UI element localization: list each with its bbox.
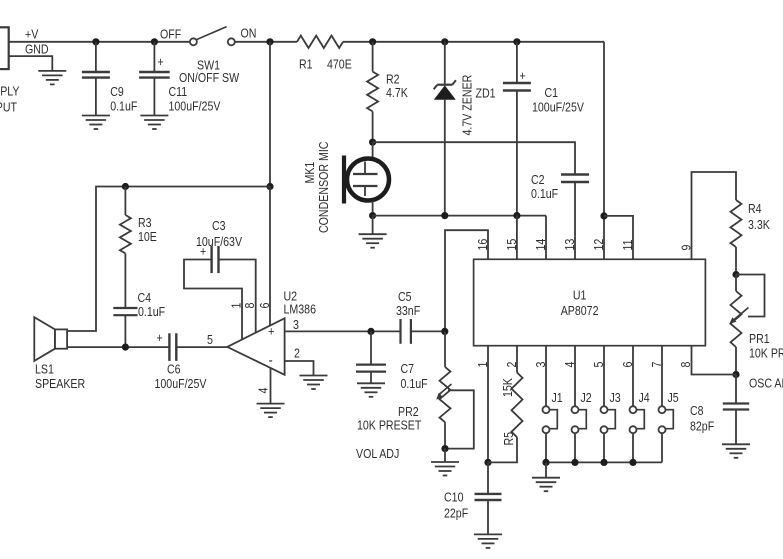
ground (PR2) [431, 462, 459, 476]
node GND label [25, 43, 49, 57]
wire C2 to pin 13 [574, 182, 576, 259]
ground (power input) [38, 71, 66, 85]
resistor R3 [120, 187, 157, 309]
ground (U2 pin 4) [257, 404, 285, 418]
svg-text:LM386: LM386 [284, 303, 316, 317]
capacitor C11 [139, 42, 221, 116]
capacitor C7 [356, 331, 428, 391]
svg-text:0.1uF: 0.1uF [110, 100, 137, 114]
pin 6 label [621, 362, 635, 368]
svg-text:4: 4 [257, 387, 271, 393]
label OFF [160, 28, 181, 42]
svg-text:100uF/25V: 100uF/25V [155, 377, 207, 391]
label CONDENSOR MIC [317, 142, 331, 233]
svg-text:C3: C3 [212, 219, 226, 233]
wire C6 to U2 output [176, 346, 227, 348]
svg-text:3.3K: 3.3K [748, 218, 770, 232]
svg-text:ZD1: ZD1 [476, 87, 496, 101]
svg-text:LS1: LS1 [35, 363, 54, 377]
junction jumper bus [571, 459, 578, 466]
wire rail to pin 12 [603, 42, 605, 259]
wire +V from connector [9, 41, 190, 43]
svg-text:J3: J3 [610, 391, 621, 405]
svg-text:U1: U1 [573, 289, 587, 303]
power supply connector J-PWR [0, 27, 20, 114]
svg-text:C6: C6 [167, 363, 181, 377]
svg-text:C8: C8 [690, 404, 704, 418]
svg-text:1: 1 [230, 303, 244, 309]
svg-text:VOL ADJ: VOL ADJ [356, 447, 399, 461]
wire pin 6 supply [269, 187, 271, 326]
svg-text:C2: C2 [531, 173, 545, 187]
svg-text:0.1uF: 0.1uF [531, 187, 558, 201]
ground (mic) [359, 234, 387, 248]
junction R4 / PR1 [732, 271, 739, 278]
svg-text:U2: U2 [284, 290, 298, 304]
capacitor C1 [503, 42, 584, 216]
svg-text:C9: C9 [110, 85, 124, 99]
wire pin to jumper J1 [545, 346, 547, 407]
wire C3 left to pin 1 [184, 260, 242, 340]
wire pin 15 stub [516, 216, 518, 260]
wire mic to C2 [373, 142, 575, 174]
wire C5 to volume node [411, 330, 445, 332]
ground (jumper bus) [532, 478, 560, 492]
svg-text:100uF/25V: 100uF/25V [532, 101, 584, 115]
svg-text:C5: C5 [398, 290, 412, 304]
svg-text:10uF/63V: 10uF/63V [196, 235, 242, 249]
junction R3 top [122, 183, 129, 190]
svg-text:SUPPLY: SUPPLY [0, 85, 20, 99]
junction pin 12 / pin 11 [600, 212, 607, 219]
jumper J3 [601, 391, 621, 462]
junction C4 bottom [122, 344, 129, 351]
svg-text:R5: R5 [502, 432, 516, 446]
svg-text:PR1: PR1 [749, 332, 770, 346]
svg-text:R3: R3 [138, 216, 152, 230]
svg-text:12: 12 [592, 239, 606, 251]
wire speaker top rail [67, 187, 270, 332]
wire SW1 to R1 [235, 41, 297, 43]
svg-text:15: 15 [505, 239, 519, 251]
resistor R2 [367, 42, 408, 142]
junction C11/+V rail [151, 38, 158, 45]
pin 14 label [534, 238, 548, 250]
svg-text:+: + [157, 331, 163, 345]
wire pin 2 to ground [285, 361, 314, 376]
svg-text:OSC ADJ: OSC ADJ [749, 377, 783, 391]
svg-text:SPEAKER: SPEAKER [35, 377, 85, 391]
wire pin to jumper J4 [632, 346, 634, 407]
wire jumper bus [546, 461, 662, 463]
svg-text:CONDENSOR MIC: CONDENSOR MIC [317, 142, 331, 233]
svg-text:11: 11 [621, 239, 635, 250]
pin 5 label [207, 333, 213, 347]
svg-text:+: + [158, 55, 164, 69]
svg-text:C7: C7 [401, 362, 415, 376]
wire GND from connector [9, 56, 53, 71]
label VOL ADJ [356, 447, 399, 461]
jumper J5 [659, 391, 679, 462]
junction speaker rail [266, 183, 273, 190]
junction C1 top [513, 38, 520, 45]
condenser mic MK1 [344, 142, 389, 215]
ground (U2 pin 2) [300, 376, 328, 390]
svg-text:10E: 10E [138, 230, 157, 244]
jumper J1 [543, 391, 563, 462]
wire pin to jumper J5 [661, 346, 663, 407]
ground (C8) [722, 444, 750, 458]
pin 1 label U2 [230, 303, 244, 309]
wire pin 16 to volume node [445, 230, 488, 331]
switch SW1 [179, 27, 239, 86]
junction volume node [441, 328, 448, 335]
pin 7 label [650, 362, 664, 368]
pin 6 label U2 [258, 303, 272, 309]
capacitor C4 [113, 291, 165, 347]
svg-text:J2: J2 [581, 391, 592, 405]
pin 4 label U2 [257, 387, 271, 393]
svg-text:2: 2 [294, 347, 300, 361]
pin 3 label [534, 362, 548, 368]
svg-text:C10: C10 [444, 491, 463, 505]
label 15K [501, 378, 515, 397]
svg-text:14: 14 [534, 238, 548, 250]
ground (C9) [82, 116, 110, 130]
capacitor C3 [196, 219, 242, 273]
pin 4 label [563, 361, 577, 367]
preset PR1 [729, 275, 783, 375]
pin 8 label U2 [243, 303, 257, 309]
pin 2 label [294, 347, 300, 361]
junction PR1 / pin 8 / C8 [732, 371, 739, 378]
svg-text:C4: C4 [138, 291, 152, 305]
svg-text:+V: +V [25, 28, 39, 42]
svg-text:100uF/25V: 100uF/25V [169, 100, 221, 114]
pin 15 label [505, 239, 519, 251]
svg-text:J4: J4 [639, 391, 651, 405]
junction jumper bus [629, 459, 636, 466]
jumper J4 [630, 391, 651, 462]
pin 11 label [621, 239, 635, 250]
svg-text:J5: J5 [668, 391, 679, 405]
wire pin 8 [692, 346, 737, 375]
svg-text:10K PRESET: 10K PRESET [357, 419, 421, 433]
junction R2 top [369, 38, 376, 45]
junction PR2 bottom [441, 445, 448, 452]
wire pin to jumper J3 [603, 346, 605, 407]
junction jumper bus [542, 459, 549, 466]
resistor R5 [488, 346, 523, 463]
svg-text:82pF: 82pF [690, 420, 714, 434]
svg-text:10K PRESET: 10K PRESET [749, 347, 783, 361]
svg-text:470E: 470E [327, 58, 352, 72]
svg-text:15K: 15K [501, 378, 515, 397]
pin 16 label [476, 239, 490, 251]
svg-text:MK1: MK1 [303, 162, 317, 184]
wire R1 to rail end [343, 41, 604, 43]
svg-text:INPUT: INPUT [0, 101, 17, 115]
junction ZD1 top [441, 38, 448, 45]
pin 3 label [293, 318, 299, 332]
svg-text:0.1uF: 0.1uF [138, 305, 165, 319]
svg-text:5: 5 [207, 333, 213, 347]
ground (C11) [140, 116, 168, 130]
capacitor C8 [690, 375, 749, 445]
zener diode ZD1 [434, 42, 496, 216]
resistor R4 [731, 200, 771, 275]
wire pin 11 stub [604, 216, 633, 259]
pin 9 label [680, 245, 694, 251]
svg-text:16: 16 [476, 239, 490, 251]
junction ZD1 / ground bus [441, 212, 448, 219]
capacitor C5 [396, 290, 420, 344]
svg-text:J1: J1 [552, 391, 563, 405]
ground (C7) [357, 383, 385, 397]
pin 5 label [592, 362, 606, 368]
svg-text:13: 13 [563, 239, 577, 251]
wire pin 3 to C5 [285, 330, 401, 332]
svg-text:8: 8 [243, 303, 257, 309]
pin 2 label [505, 362, 519, 368]
svg-text:ON: ON [241, 27, 257, 41]
svg-text:3: 3 [293, 318, 299, 332]
label ON [241, 27, 257, 41]
junction jumper bus [600, 459, 607, 466]
junction +V vertical [266, 38, 273, 45]
pin 12 label [592, 239, 606, 251]
svg-text:C1: C1 [545, 86, 559, 100]
wire +V vertical [269, 42, 271, 187]
IC U1 AP8072 [474, 259, 706, 345]
svg-text:-: - [269, 351, 274, 368]
junction C7 tap [367, 328, 374, 335]
svg-text:0.1uF: 0.1uF [401, 377, 428, 391]
wire PR2 to ground [444, 449, 446, 462]
pin 1 label [476, 362, 490, 368]
svg-text:ON/OFF SW: ON/OFF SW [179, 71, 239, 85]
pin 8 label [679, 362, 693, 368]
speaker LS1 [34, 317, 85, 391]
wire speaker bottom [67, 346, 169, 348]
wire ground bus [373, 215, 546, 217]
op-amp U2 LM386 [227, 290, 316, 375]
node +V label [25, 28, 39, 42]
svg-text:OFF: OFF [160, 28, 181, 42]
pin 13 label [563, 239, 577, 251]
label OSC ADJ [749, 377, 783, 391]
wire pin 9 to R4 [692, 172, 737, 259]
svg-text:4.7K: 4.7K [386, 86, 408, 100]
svg-text:4.7V ZENER: 4.7V ZENER [461, 75, 475, 136]
wire C3 right to pin 8 [219, 260, 256, 333]
wire mic to ground [372, 216, 374, 235]
svg-text:+: + [520, 69, 526, 83]
label 4.7V ZENER [461, 75, 475, 136]
svg-text:33nF: 33nF [396, 304, 420, 318]
wire pin 14 stub [545, 216, 547, 260]
wire pin to jumper J2 [574, 346, 576, 407]
junction mic top [369, 139, 376, 146]
svg-text:PR2: PR2 [398, 405, 419, 419]
junction C9/+V rail [92, 38, 99, 45]
junction C1 / ground bus [513, 212, 520, 219]
wire bus to ground [545, 462, 547, 477]
capacitor C9 [82, 42, 137, 116]
junction mic bottom [369, 212, 376, 219]
wire pin 1 down [487, 346, 489, 463]
preset PR2 [357, 331, 474, 448]
svg-text:22pF: 22pF [444, 507, 468, 521]
svg-text:R2: R2 [386, 73, 400, 87]
svg-text:AP8072: AP8072 [561, 304, 599, 318]
svg-text:+: + [268, 324, 274, 339]
jumper J2 [572, 391, 592, 462]
capacitor C10 [444, 462, 502, 534]
label MK1 [303, 162, 317, 184]
ground (C10) [474, 534, 502, 548]
svg-text:R4: R4 [748, 202, 762, 216]
svg-text:C11: C11 [169, 85, 188, 99]
junction pin1/R5/C10 [484, 459, 491, 466]
resistor R1 [297, 36, 352, 72]
capacitor C6 [155, 331, 207, 391]
label R5 [502, 432, 516, 446]
svg-text:R1: R1 [299, 58, 313, 72]
wire pin 4 to ground [270, 368, 272, 404]
svg-text:6: 6 [258, 303, 272, 309]
capacitor C2 [531, 173, 589, 201]
svg-text:GND: GND [25, 43, 49, 57]
